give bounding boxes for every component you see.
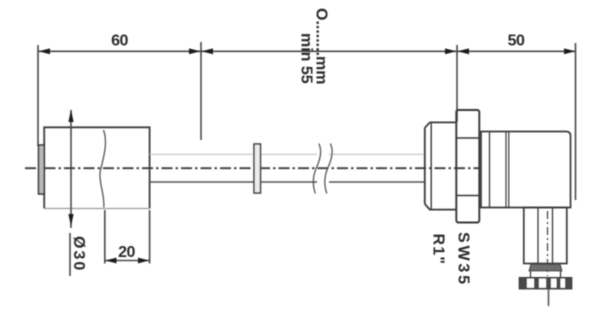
dimension D30: vertical dimension line (70, 110, 72, 228)
stem tube top line (light) (150, 153, 317, 155)
connector flange band (529, 264, 562, 271)
dimension 20: left arrowhead (105, 258, 116, 264)
svg-text:50: 50 (508, 33, 525, 50)
connector plug inner line right (552, 208, 554, 264)
dimension min55: right arrowhead (445, 48, 457, 54)
dimension 60/min55: shared extension line (200, 42, 202, 140)
cable gland ribbed nut (520, 278, 572, 289)
svg-text:R1": R1" (430, 234, 447, 266)
float end cap (39, 145, 45, 194)
housing body (481, 132, 571, 208)
svg-text:SW35: SW35 (455, 232, 472, 287)
dimension 50: left arrowhead (458, 48, 470, 54)
dimension 60: right arrowhead (189, 48, 201, 54)
centerline (horizontal axis) (25, 167, 481, 169)
dimension 20: left extension line (104, 210, 106, 264)
stem break squiggle right (325, 144, 332, 194)
svg-text:min 55: min 55 (298, 33, 315, 84)
dimension 50: left extension line (456, 45, 458, 122)
housing flange line 2 (double) (505, 132, 507, 208)
dimension 20: right arrowhead (138, 258, 149, 264)
dimension 60: dimension line (38, 50, 201, 52)
dimension min55: dimension line (201, 50, 457, 52)
dimension D30: leader segment beside label (69, 233, 71, 276)
dimension 20: right extension line (149, 210, 151, 264)
hex nut facet line upper (456, 137, 479, 139)
dimension D30: bottom arrowhead (68, 214, 73, 227)
dimension min55: left arrowhead (202, 48, 214, 54)
dimension 50: right extension line (575, 43, 577, 200)
collar stop ring on stem (254, 144, 261, 193)
dimension 50: dimension line (457, 50, 576, 52)
dimension 50: right arrowhead (564, 48, 576, 54)
connector plug block (524, 208, 567, 264)
thread fitting relief line (430, 122, 432, 209)
svg-text:20: 20 (118, 244, 135, 261)
connector plug inner line left (537, 208, 539, 264)
housing flange line 1 (489, 132, 491, 208)
cable wire below gland (548, 289, 550, 306)
float bottom edge (light) (44, 208, 149, 210)
connector vertical centerline (547, 211, 549, 276)
hex nut SW35 body (456, 110, 479, 223)
dimension 60: left extension line (37, 45, 39, 146)
dimension 20: dimension line (105, 260, 150, 262)
dimension D30: top arrowhead (68, 110, 73, 123)
float body (44, 127, 149, 208)
connector neck left line (530, 271, 532, 278)
stem tube bottom line (150, 181, 317, 183)
stem break squiggle left (313, 144, 320, 194)
hex nut facet line lower (456, 195, 479, 197)
float break squiggle (100, 130, 106, 208)
connector neck right line (560, 271, 562, 278)
dimension 60: left arrowhead (39, 48, 50, 54)
svg-text:60: 60 (111, 33, 128, 50)
svg-text:Ø30: Ø30 (70, 236, 87, 272)
thread fitting R1 body (425, 122, 457, 209)
